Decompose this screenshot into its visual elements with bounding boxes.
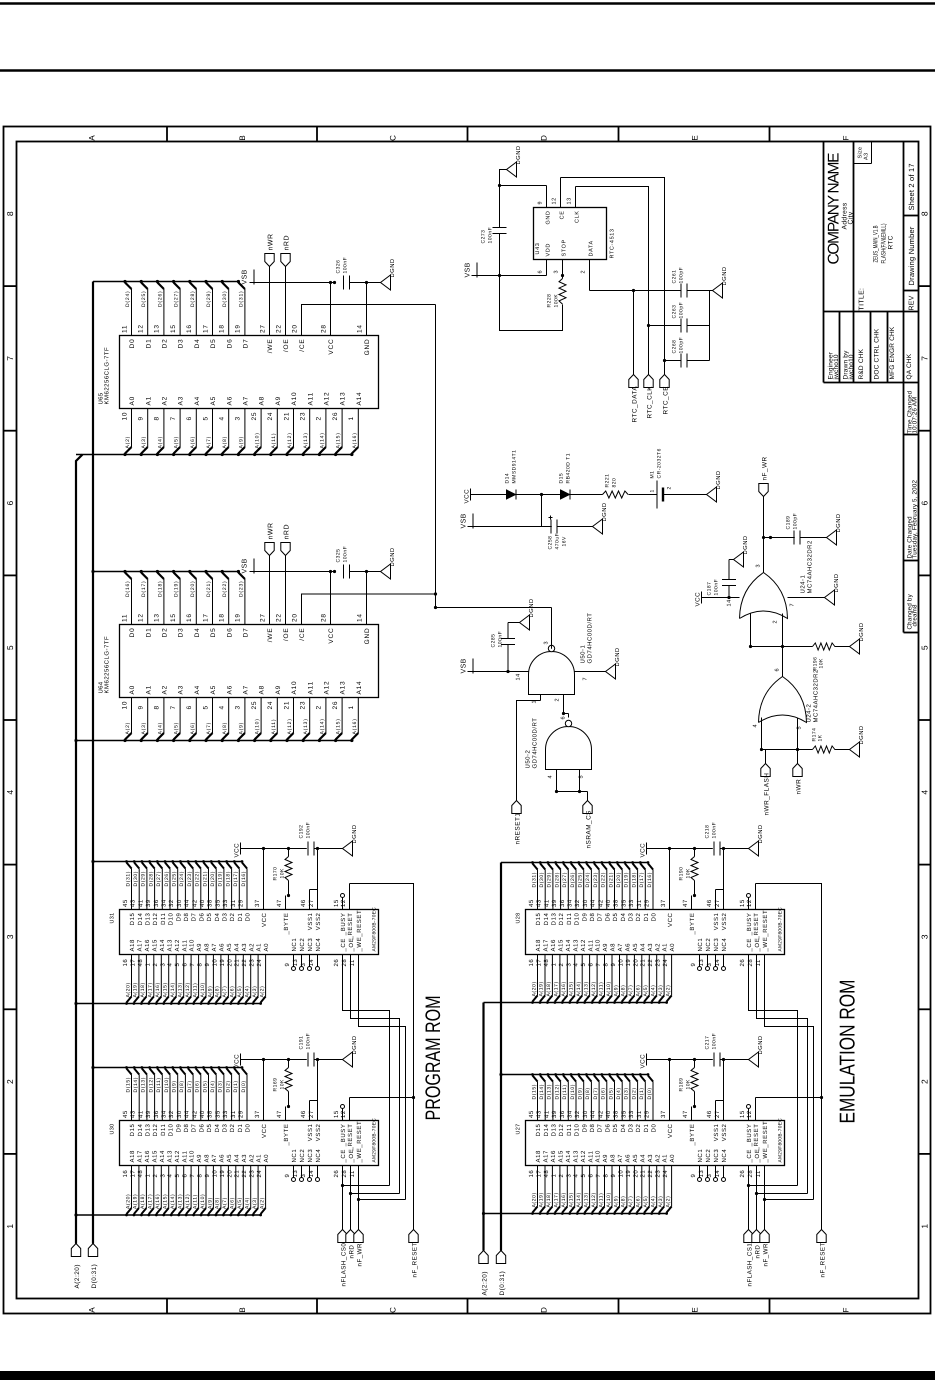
svg-text:5: 5 bbox=[5, 645, 15, 650]
svg-text:D(22): D(22) bbox=[222, 580, 228, 597]
svg-text:VSB: VSB bbox=[461, 658, 468, 673]
svg-text:20: 20 bbox=[226, 959, 233, 967]
title block address city bbox=[842, 202, 855, 229]
SRAM U64 KM62256CLG-7TF body bbox=[98, 625, 379, 698]
svg-text:D1: D1 bbox=[643, 912, 650, 921]
svg-text:D4: D4 bbox=[194, 339, 201, 349]
svg-text:6: 6 bbox=[182, 963, 189, 967]
title block size bbox=[858, 147, 870, 160]
wire _RESET net to nF_RESET bbox=[756, 884, 824, 1230]
svg-text:A(19): A(19) bbox=[133, 982, 139, 997]
svg-text:VSS2: VSS2 bbox=[721, 1123, 728, 1141]
svg-text:A17: A17 bbox=[137, 1150, 144, 1163]
svg-text:29: 29 bbox=[644, 899, 651, 907]
svg-text:12: 12 bbox=[138, 613, 145, 622]
svg-text:A5: A5 bbox=[226, 943, 233, 952]
zone number ticks left and right bbox=[4, 286, 931, 1154]
U64 pin /WE wire bbox=[259, 556, 274, 643]
svg-text:C273: C273 bbox=[481, 230, 487, 244]
svg-text:D(22): D(22) bbox=[195, 871, 201, 887]
svg-text:A1: A1 bbox=[662, 943, 669, 952]
svg-text:NC3: NC3 bbox=[307, 1149, 314, 1163]
svg-text:26: 26 bbox=[739, 959, 746, 967]
svg-text:D(7): D(7) bbox=[593, 1087, 599, 1099]
svg-text:D(28): D(28) bbox=[190, 290, 196, 307]
U24-2 input wires bbox=[753, 718, 813, 752]
svg-text:13: 13 bbox=[292, 959, 299, 967]
svg-text:D0: D0 bbox=[245, 1123, 252, 1132]
svg-text:F: F bbox=[842, 1307, 851, 1312]
U64 pin /OE wire bbox=[275, 556, 290, 642]
svg-text:45: 45 bbox=[528, 1110, 535, 1118]
svg-text:D10: D10 bbox=[168, 1123, 175, 1136]
svg-text:NC3: NC3 bbox=[713, 1149, 720, 1163]
U30 pin VCC wire bbox=[254, 1058, 268, 1138]
svg-text:5: 5 bbox=[580, 1174, 587, 1178]
svg-text:U30: U30 bbox=[110, 1124, 116, 1135]
svg-text:A(8): A(8) bbox=[222, 436, 228, 449]
svg-text:27: 27 bbox=[308, 899, 315, 907]
svg-text:A8: A8 bbox=[204, 1154, 211, 1163]
svg-text:C191: C191 bbox=[299, 1036, 305, 1050]
svg-text:D6: D6 bbox=[198, 912, 205, 921]
U27 pin VCC wire bbox=[660, 1058, 674, 1138]
svg-text:A12: A12 bbox=[324, 392, 331, 406]
svg-text:MC74AHC32DR2: MC74AHC32DR2 bbox=[807, 540, 814, 594]
svg-text:A4: A4 bbox=[233, 943, 240, 952]
svg-text:A(10): A(10) bbox=[606, 1192, 612, 1207]
svg-text:5: 5 bbox=[202, 416, 209, 420]
resistor R174 1K bbox=[812, 728, 850, 753]
svg-text:D5: D5 bbox=[210, 628, 217, 638]
svg-text:VCC: VCC bbox=[261, 912, 268, 927]
svg-text:D15: D15 bbox=[129, 912, 136, 925]
svg-text:14: 14 bbox=[516, 673, 522, 680]
svg-text:47: 47 bbox=[276, 1110, 283, 1118]
svg-text:22: 22 bbox=[647, 1170, 654, 1178]
svg-text:C189: C189 bbox=[786, 516, 792, 530]
svg-text:A(7): A(7) bbox=[222, 1197, 228, 1209]
svg-text:nWR: nWR bbox=[268, 233, 275, 250]
svg-text:D2: D2 bbox=[635, 1123, 642, 1132]
svg-text:DATA: DATA bbox=[589, 240, 595, 256]
svg-text:A(12): A(12) bbox=[591, 981, 597, 996]
svg-text:D(26): D(26) bbox=[570, 872, 576, 888]
capacitor C258 470uF 16V bbox=[548, 516, 593, 550]
flag nSRAM_CS bbox=[583, 792, 593, 849]
svg-text:A(20): A(20) bbox=[125, 1194, 131, 1209]
svg-text:D14: D14 bbox=[543, 912, 550, 925]
svg-text:18: 18 bbox=[219, 613, 226, 622]
svg-text:D(6): D(6) bbox=[601, 1087, 607, 1099]
svg-text:16: 16 bbox=[122, 1170, 129, 1178]
svg-text:_RESET: _RESET bbox=[347, 913, 354, 941]
svg-text:9: 9 bbox=[138, 705, 145, 709]
svg-text:_OE: _OE bbox=[754, 1149, 761, 1164]
svg-text:D6: D6 bbox=[226, 628, 233, 638]
svg-text:A(7): A(7) bbox=[222, 986, 228, 998]
bus D horizontal segment U30 bbox=[93, 1067, 243, 1069]
svg-text:A9: A9 bbox=[196, 943, 203, 952]
svg-text:6: 6 bbox=[561, 716, 567, 720]
svg-text:_WE_RESET: _WE_RESET bbox=[356, 910, 363, 953]
svg-text:5: 5 bbox=[579, 775, 585, 779]
svg-text:D3: D3 bbox=[178, 628, 185, 638]
U65 pin VCC wire bbox=[320, 281, 335, 355]
svg-text:A11: A11 bbox=[587, 1150, 594, 1162]
svg-text:43: 43 bbox=[536, 899, 543, 907]
svg-text:25: 25 bbox=[251, 412, 258, 421]
svg-text:D(9): D(9) bbox=[172, 1080, 178, 1092]
resistor R196 10K pulldown bbox=[813, 643, 850, 671]
svg-text:A(13): A(13) bbox=[303, 718, 309, 734]
svg-text:4: 4 bbox=[573, 963, 580, 967]
bus A horizontal segment U65 bbox=[76, 454, 353, 456]
svg-text:D(17): D(17) bbox=[141, 580, 147, 597]
svg-text:37: 37 bbox=[254, 899, 261, 907]
svg-text:41: 41 bbox=[137, 899, 144, 907]
svg-text:VSB: VSB bbox=[242, 558, 249, 573]
svg-text:47: 47 bbox=[276, 899, 283, 907]
svg-text:D1: D1 bbox=[237, 912, 244, 921]
resistor R228 100K bbox=[547, 279, 567, 308]
svg-text:12: 12 bbox=[746, 1110, 753, 1118]
svg-text:D(9): D(9) bbox=[578, 1087, 584, 1099]
svg-text:DGND: DGND bbox=[528, 598, 535, 617]
svg-text:35: 35 bbox=[214, 1110, 221, 1118]
svg-text:A7: A7 bbox=[617, 1154, 624, 1163]
resistor R190 10K pull-up bbox=[679, 847, 699, 897]
svg-text:A2: A2 bbox=[248, 943, 255, 952]
svg-text:A(9): A(9) bbox=[207, 986, 213, 998]
capacitor C191 100nF bbox=[299, 1033, 343, 1067]
svg-text:12: 12 bbox=[340, 1110, 347, 1118]
svg-text:A2: A2 bbox=[162, 396, 169, 406]
svg-text:A17: A17 bbox=[137, 939, 144, 952]
svg-text:A(18): A(18) bbox=[546, 1192, 552, 1207]
svg-text:VCC: VCC bbox=[261, 1123, 268, 1138]
svg-text:CLK: CLK bbox=[575, 211, 581, 224]
svg-text:D6: D6 bbox=[604, 1123, 611, 1132]
svg-text:A(9): A(9) bbox=[207, 1197, 213, 1209]
svg-text:D(28): D(28) bbox=[554, 872, 560, 888]
svg-text:EMULATION ROM: EMULATION ROM bbox=[836, 980, 860, 1124]
svg-text:43: 43 bbox=[536, 1110, 543, 1118]
svg-text:A12: A12 bbox=[174, 1150, 181, 1163]
RTC U43 RTC-4513 body bbox=[534, 208, 616, 260]
or gate U24-1 MC74AHC32DR2 bbox=[740, 540, 814, 619]
svg-text:100nF: 100nF bbox=[712, 1033, 718, 1050]
svg-text:7: 7 bbox=[170, 705, 177, 709]
svg-text:A(8): A(8) bbox=[621, 985, 627, 997]
title block changed by bbox=[907, 593, 919, 629]
ground DGND at U64 rail bbox=[367, 547, 397, 579]
svg-text:_CE: _CE bbox=[340, 938, 347, 952]
svg-text:23: 23 bbox=[655, 959, 662, 967]
svg-text:8: 8 bbox=[154, 416, 161, 420]
svg-text:34: 34 bbox=[161, 1110, 168, 1118]
svg-text:A1: A1 bbox=[256, 1154, 263, 1163]
svg-text:A1: A1 bbox=[256, 943, 263, 952]
svg-text:17: 17 bbox=[129, 1170, 136, 1178]
svg-text:40: 40 bbox=[199, 1110, 206, 1118]
U65 pin /CE labels bbox=[291, 324, 306, 352]
svg-text:Sheet 2 of 17: Sheet 2 of 17 bbox=[907, 163, 916, 210]
svg-text:3: 3 bbox=[235, 705, 242, 709]
svg-text:3: 3 bbox=[5, 934, 15, 939]
svg-text:C326: C326 bbox=[336, 260, 342, 274]
svg-text:A3: A3 bbox=[647, 1154, 654, 1163]
svg-text:100pF: 100pF bbox=[679, 302, 685, 319]
resistor R221 820 bbox=[603, 474, 657, 498]
svg-text:A(11): A(11) bbox=[271, 719, 277, 735]
svg-text:19: 19 bbox=[625, 959, 632, 967]
svg-text:31: 31 bbox=[230, 899, 237, 907]
svg-text:Drawing Number: Drawing Number bbox=[907, 226, 916, 285]
svg-text:A(4): A(4) bbox=[245, 1197, 251, 1209]
svg-text:1: 1 bbox=[348, 416, 355, 420]
svg-text:_RESET: _RESET bbox=[753, 913, 760, 941]
svg-text:D4: D4 bbox=[620, 1123, 627, 1132]
svg-text:15: 15 bbox=[333, 899, 340, 907]
svg-text:1: 1 bbox=[550, 1174, 557, 1178]
svg-text:C285: C285 bbox=[491, 634, 497, 648]
svg-text:9: 9 bbox=[610, 1174, 617, 1178]
svg-text:D15: D15 bbox=[559, 473, 565, 484]
svg-text:A14: A14 bbox=[356, 392, 363, 406]
svg-text:48: 48 bbox=[137, 959, 144, 967]
svg-text:3: 3 bbox=[544, 641, 550, 645]
svg-text:6: 6 bbox=[538, 270, 544, 274]
capacitor C326 100nF bbox=[336, 257, 367, 290]
svg-text:1: 1 bbox=[920, 1224, 930, 1229]
svg-text:DGND: DGND bbox=[351, 1035, 358, 1054]
svg-text:7: 7 bbox=[189, 1174, 196, 1178]
wire U24-2 output bbox=[782, 647, 784, 677]
svg-text:13: 13 bbox=[567, 197, 573, 204]
power net VSB feed wire bbox=[461, 495, 552, 529]
ground DGND at C285 bbox=[520, 615, 530, 630]
svg-text:D(23): D(23) bbox=[238, 580, 244, 597]
svg-text:C: C bbox=[389, 135, 398, 141]
svg-text:19: 19 bbox=[625, 1170, 632, 1178]
zone numbers left strip bbox=[5, 211, 15, 1228]
page rule bottom bbox=[0, 1371, 935, 1380]
svg-text:A0: A0 bbox=[129, 685, 136, 695]
or gate U24-2 MC74AHC32DR2 bbox=[759, 668, 820, 723]
svg-text:A(2): A(2) bbox=[665, 1196, 671, 1208]
U28 control pin labels _CE _OE _WE_RESET bbox=[739, 910, 769, 967]
svg-text:R170: R170 bbox=[273, 867, 279, 881]
svg-text:100nF: 100nF bbox=[343, 546, 349, 563]
svg-text:A(6): A(6) bbox=[190, 722, 196, 735]
svg-text:A(2): A(2) bbox=[125, 722, 131, 735]
svg-text:1: 1 bbox=[5, 1224, 15, 1229]
U27 address pins A18-A0 with bus entries bbox=[528, 1150, 676, 1215]
svg-text:D2: D2 bbox=[162, 628, 169, 638]
bus D horizontal segment U65 bbox=[93, 281, 240, 283]
U43 pin STOP wire bbox=[554, 239, 568, 278]
svg-text:A(14): A(14) bbox=[576, 981, 582, 996]
svg-text:A(3): A(3) bbox=[141, 722, 147, 735]
svg-text:D12: D12 bbox=[152, 1123, 159, 1136]
svg-text:40: 40 bbox=[605, 1110, 612, 1118]
U27 control pin labels _CE _OE _WE_RESET bbox=[739, 1121, 769, 1178]
title block time changed bbox=[907, 390, 919, 433]
svg-text:27: 27 bbox=[714, 1110, 721, 1118]
svg-text:D12: D12 bbox=[558, 1123, 565, 1136]
svg-text:D6: D6 bbox=[226, 339, 233, 349]
svg-text:D(24): D(24) bbox=[585, 872, 591, 888]
svg-text:D(19): D(19) bbox=[624, 872, 630, 888]
svg-text:D(20): D(20) bbox=[616, 872, 622, 888]
svg-text:A7: A7 bbox=[211, 1154, 218, 1163]
resistor R169 10K pull-up bbox=[273, 1058, 293, 1108]
svg-text:D(29): D(29) bbox=[206, 290, 212, 307]
svg-text:33: 33 bbox=[628, 899, 635, 907]
wire /CE U65 to NAND output node bbox=[302, 305, 436, 336]
svg-text:A7: A7 bbox=[243, 685, 250, 695]
svg-text:5: 5 bbox=[797, 726, 803, 730]
svg-text:32: 32 bbox=[574, 1110, 581, 1118]
svg-text:VSS1: VSS1 bbox=[713, 1123, 720, 1141]
svg-text:DGND: DGND bbox=[389, 258, 396, 277]
svg-text:nRESET1: nRESET1 bbox=[515, 813, 522, 845]
svg-text:A(13): A(13) bbox=[303, 432, 309, 448]
svg-text:5: 5 bbox=[202, 705, 209, 709]
svg-text:D5: D5 bbox=[612, 1123, 619, 1132]
svg-text:A2: A2 bbox=[654, 1154, 661, 1163]
svg-text:D(5): D(5) bbox=[608, 1087, 614, 1099]
svg-text:VCC: VCC bbox=[464, 489, 471, 504]
svg-text:15: 15 bbox=[739, 899, 746, 907]
svg-text:D9: D9 bbox=[175, 1123, 182, 1132]
svg-text:2: 2 bbox=[558, 963, 565, 967]
svg-text:D(12): D(12) bbox=[148, 1077, 154, 1093]
svg-text:12: 12 bbox=[138, 324, 145, 333]
svg-text:A8: A8 bbox=[610, 943, 617, 952]
svg-text:D(3): D(3) bbox=[624, 1087, 630, 1099]
svg-text:D14: D14 bbox=[137, 1123, 144, 1136]
wire _WE net to nF_WR bbox=[357, 955, 406, 1230]
svg-text:A9: A9 bbox=[602, 1154, 609, 1163]
svg-text:D8: D8 bbox=[183, 912, 190, 921]
svg-text:100nF: 100nF bbox=[343, 257, 349, 274]
svg-text:A(4): A(4) bbox=[651, 1196, 657, 1208]
zone letters bottom strip bbox=[88, 1307, 851, 1313]
U28 pin VCC wire bbox=[660, 847, 674, 927]
svg-text:D1: D1 bbox=[145, 628, 152, 638]
svg-text:9: 9 bbox=[610, 963, 617, 967]
svg-text:7: 7 bbox=[595, 963, 602, 967]
page rule upper bbox=[0, 69, 935, 72]
svg-text:A4: A4 bbox=[639, 1154, 646, 1163]
svg-text:RB420D T1: RB420D T1 bbox=[566, 453, 572, 484]
svg-text:7: 7 bbox=[920, 356, 930, 361]
svg-text:20: 20 bbox=[226, 1170, 233, 1178]
svg-text:DGND: DGND bbox=[715, 470, 722, 489]
svg-text:A6: A6 bbox=[219, 1154, 226, 1163]
svg-text:RTC_DATA: RTC_DATA bbox=[632, 386, 639, 423]
svg-text:8: 8 bbox=[197, 1174, 204, 1178]
svg-text:D8: D8 bbox=[589, 912, 596, 921]
svg-text:A13: A13 bbox=[340, 392, 347, 406]
bus D(0:31) vertical left bbox=[92, 282, 94, 1244]
svg-text:D(23): D(23) bbox=[593, 872, 599, 888]
svg-text:9: 9 bbox=[138, 416, 145, 420]
svg-text:36: 36 bbox=[153, 1110, 160, 1118]
svg-text:AM29F800B-70EC: AM29F800B-70EC bbox=[778, 907, 784, 952]
svg-text:A(20): A(20) bbox=[531, 981, 537, 996]
svg-text:13: 13 bbox=[292, 1170, 299, 1178]
svg-text:27: 27 bbox=[259, 613, 266, 622]
svg-text:_WE_RESET: _WE_RESET bbox=[762, 910, 769, 953]
svg-text:9: 9 bbox=[284, 1174, 291, 1178]
svg-text:C268: C268 bbox=[672, 340, 678, 354]
svg-text:_OE: _OE bbox=[754, 938, 761, 953]
svg-text:VSS1: VSS1 bbox=[307, 912, 314, 930]
SRAM U65 KM62256CLG-7TF body bbox=[98, 336, 379, 409]
svg-text:D2: D2 bbox=[635, 912, 642, 921]
svg-text:A12: A12 bbox=[174, 939, 181, 952]
svg-text:A(5): A(5) bbox=[174, 436, 180, 449]
svg-text:8: 8 bbox=[197, 963, 204, 967]
svg-text:A(15): A(15) bbox=[569, 1192, 575, 1207]
svg-text:nF_WR: nF_WR bbox=[763, 1243, 770, 1267]
svg-text:D14: D14 bbox=[137, 912, 144, 925]
svg-text:U24-1: U24-1 bbox=[800, 574, 807, 593]
page rule top bbox=[0, 2, 935, 5]
svg-text:D13: D13 bbox=[145, 1123, 152, 1136]
svg-text:23: 23 bbox=[249, 959, 256, 967]
svg-text:A14: A14 bbox=[565, 939, 572, 952]
bus junction dots right bbox=[482, 1073, 503, 1215]
svg-text:nRD: nRD bbox=[755, 1245, 762, 1259]
flag nF_WR bbox=[760, 1230, 770, 1267]
svg-text:D(4): D(4) bbox=[616, 1087, 622, 1099]
svg-text:REV: REV bbox=[909, 295, 916, 310]
svg-text:D(23): D(23) bbox=[187, 871, 193, 887]
power net VSB at U43 bbox=[465, 262, 565, 277]
svg-text:45: 45 bbox=[528, 899, 535, 907]
svg-text:D: D bbox=[540, 135, 549, 141]
svg-text:A(16): A(16) bbox=[561, 981, 567, 996]
svg-text:A13: A13 bbox=[166, 939, 173, 952]
svg-text:9: 9 bbox=[204, 963, 211, 967]
svg-text:D(7): D(7) bbox=[187, 1080, 193, 1092]
svg-text:4: 4 bbox=[548, 775, 554, 779]
svg-text:D(28): D(28) bbox=[148, 871, 154, 887]
svg-text:A18: A18 bbox=[129, 939, 136, 952]
svg-text:A14: A14 bbox=[159, 1150, 166, 1163]
svg-text:VSS2: VSS2 bbox=[315, 1123, 322, 1141]
svg-text:nWR_FLASH: nWR_FLASH bbox=[764, 773, 771, 816]
U64 pin /CE labels bbox=[291, 613, 306, 641]
svg-text:D(4): D(4) bbox=[210, 1080, 216, 1092]
svg-text:31: 31 bbox=[636, 1110, 643, 1118]
svg-text:38: 38 bbox=[207, 899, 214, 907]
svg-text:D3: D3 bbox=[222, 1123, 229, 1132]
svg-text:36: 36 bbox=[559, 1110, 566, 1118]
svg-text:nRD: nRD bbox=[349, 1245, 356, 1259]
svg-text:VDD: VDD bbox=[546, 243, 552, 256]
svg-text:A(8): A(8) bbox=[215, 986, 221, 998]
U28 pin _BUSY no-connect bbox=[739, 894, 753, 937]
svg-text:A13: A13 bbox=[166, 1150, 173, 1163]
svg-text:8: 8 bbox=[603, 1174, 610, 1178]
svg-text:PROGRAM ROM: PROGRAM ROM bbox=[422, 996, 445, 1121]
svg-text:D0: D0 bbox=[129, 339, 136, 349]
